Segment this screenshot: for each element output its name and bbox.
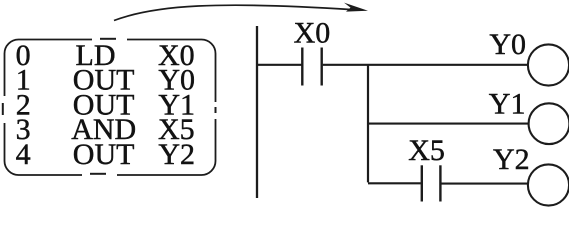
instruction line 0: LD X0 (16, 39, 195, 72)
coil Y1 (529, 103, 569, 144)
coil Y2 (528, 164, 569, 205)
contact X5 (422, 165, 441, 201)
instruction line 1: OUT Y0 (16, 64, 195, 97)
instruction line 3: AND X5 (16, 113, 195, 146)
svg-text:X5: X5 (408, 134, 445, 167)
instruction line 4: OUT Y2 (16, 138, 195, 171)
wire rail to contact X0 (257, 64, 302, 66)
instruction line 2: OUT Y1 (16, 88, 195, 121)
junction vertical wire (367, 65, 369, 183)
transfer arrow (114, 3, 368, 21)
svg-text:Y2: Y2 (493, 143, 530, 176)
instruction list box border breaks (2, 37, 219, 179)
svg-text:4: 4 (16, 138, 31, 171)
instruction list box (5, 40, 216, 176)
coil Y0 (528, 44, 569, 85)
left power rail (256, 26, 258, 198)
wire junction to coil Y1 (middle rung) (368, 123, 529, 125)
svg-text:Y1: Y1 (489, 87, 526, 120)
svg-text:Y2: Y2 (158, 138, 195, 171)
contact X0 (302, 48, 321, 86)
wire contact X5 to coil Y2 (441, 183, 528, 185)
wire junction to contact X5 (bottom rung) (368, 182, 421, 184)
svg-text:OUT: OUT (73, 138, 135, 171)
svg-text:X0: X0 (294, 17, 331, 50)
wire contact X0 to coil Y0 (top rung) (323, 64, 528, 66)
svg-text:Y0: Y0 (489, 28, 526, 61)
